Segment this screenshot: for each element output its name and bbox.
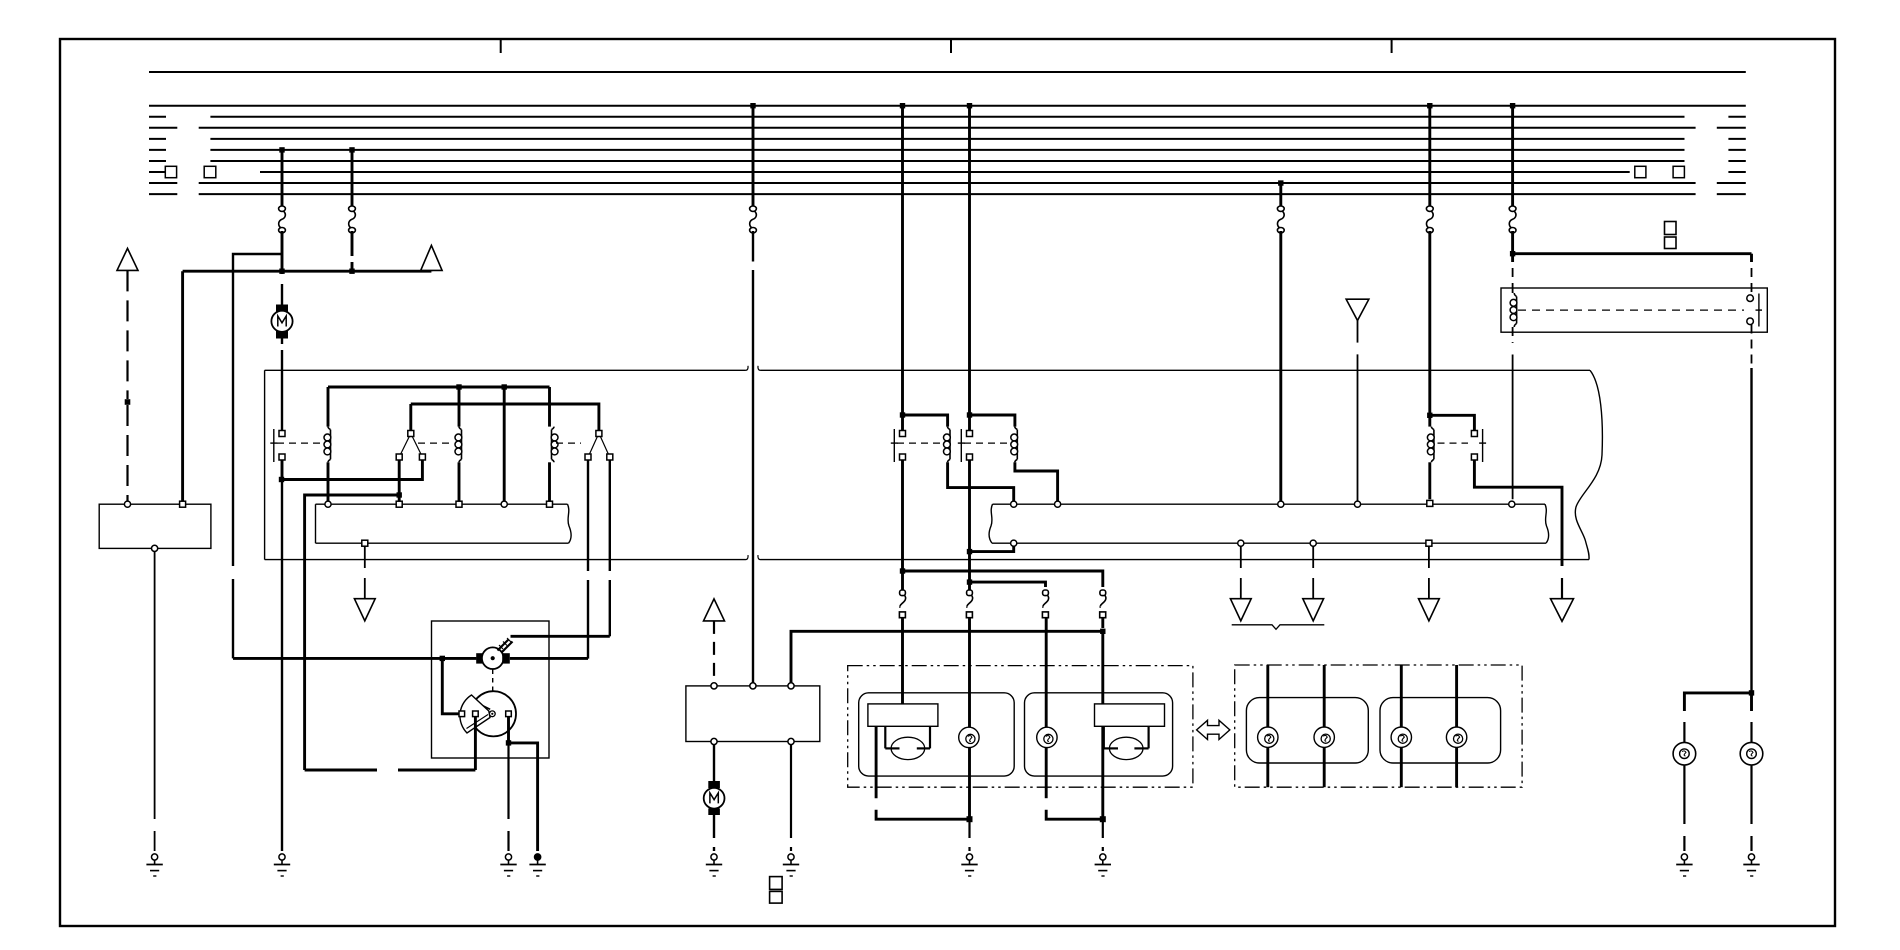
relay R3 coil xyxy=(551,427,558,463)
bus line 5 right stub xyxy=(1728,149,1745,151)
bus line 2 left stub xyxy=(149,116,166,118)
relay R1 switch xyxy=(270,429,285,462)
wire: connector to right lamp xyxy=(1101,618,1104,629)
marker bulb right xyxy=(1740,742,1763,765)
junction dot bus line1 / F3 xyxy=(750,103,755,108)
right position bulb xyxy=(1037,727,1057,747)
ground G10 xyxy=(1743,854,1759,876)
page connector triangle D (up) xyxy=(704,598,725,621)
wire: R5 feed jog to coil xyxy=(970,415,1015,427)
tail light dash-dot housing xyxy=(1235,665,1522,787)
feed wire from ignition switch node xyxy=(183,270,432,273)
wire: triangle D to washer unit (dashed) xyxy=(713,621,715,683)
tail lamp left body (rounded) xyxy=(1246,698,1368,763)
wire: dot to coil R2 top xyxy=(458,387,461,427)
wire: R3 switch right leg xyxy=(609,460,611,636)
taillight relay box xyxy=(1501,288,1767,332)
relay R2 switch (changeover) xyxy=(396,431,425,461)
relay R5 switch xyxy=(958,429,973,462)
tail bulb 4 wire xyxy=(1455,665,1458,787)
wire: motor M2 to ground G5 xyxy=(713,815,715,851)
wire: left marker bulb feed xyxy=(1683,722,1685,743)
HT lead: tower to R3 left leg (636 rail) xyxy=(511,635,610,638)
wire: bus line8 tap to fuse F4 xyxy=(1279,183,1282,207)
wire: coil R7 top stub xyxy=(1512,288,1514,293)
junction dot relay R4 feed xyxy=(900,412,905,417)
wire: distributor right pin down xyxy=(507,717,510,743)
page connector triangle H (down) xyxy=(1419,599,1440,621)
ignition coil body xyxy=(482,647,504,669)
wire: 387 rail down to coil R3 xyxy=(548,387,551,427)
bus line 9 right stub xyxy=(1717,193,1746,195)
wire: right lamp down from bulb base xyxy=(1101,726,1104,819)
splice dot on triangle A wire xyxy=(125,399,131,405)
left control unit box xyxy=(316,504,572,543)
double arrow symbol xyxy=(1197,720,1230,739)
distributor shaft center xyxy=(489,711,495,717)
top border tick 1 xyxy=(500,39,502,53)
ground G8 xyxy=(1095,854,1111,876)
dimmer relay unit box top edge break hooks xyxy=(746,366,761,371)
pin: washer unit top-left xyxy=(711,683,717,689)
wire: pin to triangle E xyxy=(1240,546,1242,598)
right headlamp bulb glass xyxy=(1109,737,1143,759)
left headlamp body (rounded) xyxy=(859,693,1015,776)
coil bus wire (387 rail) xyxy=(328,386,550,389)
left headlamp bulb base xyxy=(868,704,938,726)
wire: coil R3 bottom to ECU pin xyxy=(548,462,551,501)
bus line 9 left stub xyxy=(149,193,177,195)
junction dot relay R5 feed xyxy=(967,412,972,417)
wire: right marker to ground G10 xyxy=(1750,765,1752,851)
wire: R6 switch out jog xyxy=(1474,460,1562,566)
junction dot F2 / feed wire xyxy=(349,269,354,274)
wire: pin to triangle F xyxy=(1312,546,1314,598)
pin: right box bottom x1013 (circle) xyxy=(1011,540,1017,546)
junction dot bus line1 x902 xyxy=(900,103,905,108)
left small control box xyxy=(99,504,211,548)
page connector triangle B (up) xyxy=(421,245,442,271)
dimmer relay unit box xyxy=(1575,370,1602,559)
bus line 2 right stub xyxy=(1728,116,1745,118)
ground G7 xyxy=(961,854,977,876)
page connector triangle E (down) xyxy=(1230,599,1251,621)
ground G5 xyxy=(706,854,722,876)
wire: fuse F3 down to washer unit xyxy=(752,231,754,683)
bus line 1 xyxy=(149,105,1746,107)
wire through right position bulb xyxy=(1045,618,1048,799)
wire through left position bulb xyxy=(968,618,971,820)
junction dot taillight feed node xyxy=(1510,251,1515,256)
ignition coil primary right terminal xyxy=(502,653,510,663)
pin: right box top x1357 (circle) xyxy=(1354,501,1360,507)
pin: right box bottom x1240 (circle) xyxy=(1238,540,1244,546)
wire: coil R5 bottom jog to right box pin xyxy=(1015,462,1058,501)
wire: coil R7 bottom down (dashed) xyxy=(1512,327,1514,499)
wire: bus line1 tap to fuse F3 xyxy=(752,106,755,207)
ground G4 (condenser, solid pin) xyxy=(529,854,545,876)
pin: left ECU bottom (square) xyxy=(362,540,368,546)
bus line 7 left stub xyxy=(149,171,165,173)
693 rail to left marker xyxy=(1684,693,1751,711)
wire: node to left box pin xyxy=(181,271,184,501)
connector right lamp small xyxy=(1042,590,1048,618)
connector box C on line 7 xyxy=(1635,166,1646,177)
wire: R5 top pin from dot xyxy=(968,415,971,431)
bus line 8 left stub xyxy=(149,182,177,184)
fuse F5 xyxy=(1426,206,1433,233)
wire: coil R2 bottom to ECU pin xyxy=(458,462,461,501)
relay R7 switch xyxy=(1747,294,1762,327)
fuse F1 xyxy=(279,206,286,233)
pin: right box top x1013 (circle) xyxy=(1011,501,1017,507)
wire: fuse F5 down to relay R6 xyxy=(1428,231,1431,415)
junction dot condenser branch xyxy=(506,740,511,745)
ignition coil HT tower (hatched) xyxy=(498,638,513,653)
top border tick 3 xyxy=(1391,39,1393,53)
junction dot bus line5 / F1 xyxy=(279,147,284,152)
wire: R7 switch out down xyxy=(1751,325,1753,693)
pin: left box top right (square) xyxy=(180,501,186,507)
small squares marker (bottom) xyxy=(770,877,783,904)
pin: right box top x1057 (circle) xyxy=(1055,501,1061,507)
pin: right box bottom x1428 (square) xyxy=(1426,540,1432,546)
relay R3 switch (changeover) xyxy=(585,431,613,461)
bus line 6 left stub xyxy=(149,160,166,162)
bus line 7 right stub xyxy=(1728,171,1745,173)
tail bulb 1 wire xyxy=(1266,665,1269,787)
wire: dot to right-box pin xyxy=(503,387,506,501)
bus line 5 xyxy=(210,149,1684,151)
junction dot 387 rail / coil R2 feed xyxy=(456,384,461,389)
ground G3 xyxy=(500,854,516,876)
pin: left ECU coil R3 (square) xyxy=(547,501,553,507)
pin: left ECU coil R1 (circle) xyxy=(325,501,331,507)
tail bulb 4 xyxy=(1446,727,1466,747)
connector box D on line 7 xyxy=(1673,166,1684,177)
bus line 6 right stub xyxy=(1728,160,1745,162)
motor M1 (washer motor) xyxy=(271,305,292,339)
wire: washer jog to long drop xyxy=(233,254,282,566)
pin: right box top x1429 (square) xyxy=(1427,500,1433,506)
wire: condenser branch xyxy=(509,743,538,851)
bus line 4 right stub xyxy=(1728,138,1745,140)
dimmer relay unit box top edge left part xyxy=(265,369,746,371)
page connector triangle F (down) xyxy=(1303,599,1324,621)
wire: bus line1 tap to fuse F5 xyxy=(1428,106,1431,207)
pin: distributor left xyxy=(459,711,465,717)
junction dot 631 rail / right lamp xyxy=(1100,629,1105,634)
washer control unit box xyxy=(686,686,820,742)
tail bulb 1 xyxy=(1258,727,1278,747)
relay R5 coil xyxy=(1011,427,1018,463)
right headlamp bulb cup left side xyxy=(1104,726,1118,748)
bus line 5 left stub xyxy=(149,149,166,151)
ground G1 xyxy=(146,854,162,876)
pin: right box bottom x1313 (circle) xyxy=(1310,540,1316,546)
fuse F3 xyxy=(750,206,757,233)
dimmer relay unit box bottom edge right part xyxy=(761,559,1590,561)
wire: antenna stem xyxy=(1357,321,1359,502)
fuse F6 xyxy=(1509,206,1516,233)
tail bulb 2 xyxy=(1314,727,1334,747)
top border tick 2 xyxy=(950,39,952,53)
relay R4 switch xyxy=(891,429,906,462)
pin: washer unit bottom-left xyxy=(711,738,717,744)
top horizontal rule xyxy=(149,71,1746,73)
631 rail: washer feed to right lamp wire xyxy=(791,631,1102,683)
wire: fuse F4 to right box pin xyxy=(1279,231,1282,501)
tail bulb 2 wire xyxy=(1323,665,1326,787)
page connector triangle C (down) xyxy=(354,599,375,621)
left position bulb xyxy=(959,727,979,747)
underline bracket below triangles E/F xyxy=(1232,625,1325,630)
right headlamp bulb cup right side xyxy=(1134,726,1148,748)
junction dot bus line1 x969 xyxy=(967,103,972,108)
wire: 254 rail down to R7 switch (dashed) xyxy=(1750,254,1753,295)
wire: R2 bottom-left pin down xyxy=(398,460,401,501)
bus line 4 left stub xyxy=(149,138,166,140)
junction dot right lamp ground xyxy=(1100,816,1106,822)
pin: distributor middle xyxy=(473,711,479,717)
wire: coil R6 bottom to right box pin xyxy=(1428,462,1431,499)
wire: left lamp to ground G7 xyxy=(968,819,970,851)
junction dot 571 rail xyxy=(900,568,905,573)
junction dot 658 rail xyxy=(440,656,445,661)
wire: bus line1 tap down (right headlamp feed) xyxy=(968,106,971,415)
wire: R1 common to ground drop xyxy=(281,480,283,852)
wire: R6 feed jog to switch xyxy=(1430,415,1475,430)
dashed shaft: coil to distributor xyxy=(492,670,494,691)
wire: to left lamp small bulb connector xyxy=(968,582,971,590)
wire: 551 jog up to right box bottom pin xyxy=(970,546,1014,551)
connector right lamp main xyxy=(1100,590,1106,618)
wire: R4 switch out down xyxy=(901,460,904,571)
bus line 2 xyxy=(210,116,1684,118)
connector left lamp main xyxy=(899,590,905,618)
wire: distributor right pin to ground G3 xyxy=(507,743,509,851)
bus line 8 xyxy=(199,182,1696,184)
dimmer relay unit box bottom edge left part xyxy=(265,559,746,561)
tail bulb 3 wire xyxy=(1400,665,1403,787)
wire: left ECU bottom pin to triangle C xyxy=(364,546,366,599)
bus line 3 right stub xyxy=(1717,127,1746,129)
wire: bus line1 tap down (left headlamp feed) xyxy=(901,106,904,415)
wire: pin to triangle H xyxy=(1428,546,1430,598)
junction dot 387 rail / ECU feed xyxy=(502,384,507,389)
relay R6 coil xyxy=(1427,427,1434,463)
left headlamp bulb cup right side xyxy=(917,726,930,748)
page connector triangle A (up) xyxy=(117,248,138,270)
relay R6 switch (bar on right) xyxy=(1471,429,1486,462)
wire: R2 top pin feed xyxy=(409,404,412,431)
tail bulb 3 xyxy=(1391,727,1411,747)
wire: connector to left lamp xyxy=(901,618,904,704)
left headlamp bulb cup left side xyxy=(885,726,899,748)
wire: coil terminal to R3 right leg (658 rail right) xyxy=(510,657,588,660)
wire: fuse F1 to node row xyxy=(281,231,284,271)
wire: left box to ground G1 xyxy=(154,552,156,852)
wire: fuse F2 to node row xyxy=(351,231,354,271)
wire: right lamp wire continues xyxy=(1101,631,1104,704)
distributor rotor (wedge) xyxy=(460,695,490,733)
wire: to left lamp connector xyxy=(901,571,904,590)
junction dot bus line1 / F6 xyxy=(1510,103,1515,108)
relay R7 coil xyxy=(1510,293,1517,327)
junction dot bus line1 / F5 xyxy=(1427,103,1432,108)
relay R4 coil xyxy=(944,427,951,463)
junction dot relay R6 feed xyxy=(1427,413,1432,418)
wire: R5 switch out down xyxy=(968,460,971,552)
ground G9 xyxy=(1676,854,1692,876)
junction dot marker feed xyxy=(1749,690,1754,695)
left lamp ground link xyxy=(876,726,969,819)
coil R1 top feed wire xyxy=(327,387,330,427)
bus line 3 left stub xyxy=(149,127,177,129)
fuse F2 xyxy=(349,206,356,233)
dimmer relay unit box top edge right part xyxy=(761,369,1591,371)
relay R1 coil xyxy=(324,427,331,463)
marker bulb left xyxy=(1673,742,1696,765)
page connector triangle G (down) xyxy=(1551,599,1574,622)
wire: right lamp to ground G8 xyxy=(1102,819,1104,851)
dimmer relay unit box bottom edge break hooks xyxy=(746,555,761,560)
wire: R6 out to triangle G xyxy=(1561,578,1563,599)
404 rail (R2/R3 switch feed) xyxy=(411,404,599,431)
dimmer relay unit box left edge xyxy=(264,370,266,559)
wire: motor M1 to relay R1 switch xyxy=(281,339,283,431)
tail lamp right body (rounded) xyxy=(1380,698,1501,763)
pin: left ECU feed (circle) xyxy=(501,501,507,507)
bus line 6 xyxy=(210,160,1684,162)
connector box B on line 7 xyxy=(204,166,216,177)
right headlamp bulb base xyxy=(1095,704,1165,726)
distributor cap (pac-man circle) xyxy=(461,691,516,736)
relay R7 dashed link xyxy=(1518,309,1744,311)
bus line 7 xyxy=(260,171,1630,173)
pin: left box bottom (circle) xyxy=(152,545,158,551)
left headlamp bulb glass xyxy=(891,737,925,759)
right headlamp body (rounded) xyxy=(1025,693,1173,776)
pin: left box top left (circle) xyxy=(124,501,130,507)
ignition coil primary left terminal xyxy=(476,653,483,663)
582 rail to right lamp small bulb wire xyxy=(970,582,1046,587)
pin: right box top x1512 (circle) xyxy=(1509,501,1515,507)
relay R6 dashed link xyxy=(1438,442,1469,444)
junction dot 495 rail xyxy=(397,492,402,497)
wire: R4 top pin from dot xyxy=(901,415,904,431)
bus line 3 xyxy=(199,127,1696,129)
wire: long drop to ignition coil (658 rail) xyxy=(233,657,476,660)
wire: washer unit right pin to ground G6 xyxy=(790,745,792,851)
long drop wire lower part xyxy=(232,579,234,658)
junction dot 582 jog xyxy=(967,579,972,584)
motor M2 (pump motor) xyxy=(704,781,725,815)
ignition unit box xyxy=(432,621,550,758)
left headlight dash-dot housing xyxy=(848,666,1193,788)
wire: coil R1 bottom to ECU pin xyxy=(327,462,330,501)
wire: dot down to distributor pin xyxy=(442,658,458,713)
wire: bus line5 tap to fuse F1 xyxy=(281,150,284,207)
bus line 4 xyxy=(210,138,1684,140)
pin: washer unit top-right xyxy=(788,683,794,689)
bus line 9 xyxy=(199,193,1696,195)
junction dot 479 rail xyxy=(279,477,284,482)
junction dot bus line5 / F2 xyxy=(349,147,354,152)
wire: distributor middle pin to 770 rail xyxy=(474,717,477,770)
antenna triangle (down) xyxy=(1346,299,1369,320)
wire: fuse F6 to taillight relay node xyxy=(1511,231,1514,254)
wire: R1 switch out / 479 rail xyxy=(282,460,422,480)
254 rail to taillight switch xyxy=(1513,252,1752,255)
495 rail (R2 switch to wiper link) xyxy=(305,495,400,770)
junction dot 551 jog xyxy=(967,549,972,554)
relay R5 dashed link xyxy=(964,442,1007,444)
wire: coil R4 bottom jog to right box pin xyxy=(948,462,1014,501)
pin: left ECU R2 left (square) xyxy=(396,501,402,507)
pin: distributor right xyxy=(506,711,512,717)
relay R2 coil xyxy=(455,427,462,463)
wire: node into relay R7 coil (dashed) xyxy=(1511,254,1514,288)
wire: bus line1 tap to fuse F6 xyxy=(1511,106,1514,207)
relay R4 dashed link xyxy=(897,442,940,444)
wire: R3 switch left leg xyxy=(587,460,589,659)
junction dot left lamp ground xyxy=(967,816,973,822)
fuse F4 xyxy=(1277,206,1284,233)
pin: washer unit top-mid xyxy=(750,683,756,689)
ground G2 xyxy=(274,854,290,876)
571 rail to right lamp xyxy=(903,571,1103,587)
relay R1 dashed link xyxy=(277,442,323,444)
wire: R5 out continues down xyxy=(968,552,971,583)
connector box A on line 7 xyxy=(165,166,176,177)
relay R3 dashed link xyxy=(556,442,581,444)
motor M1 wire upper xyxy=(281,271,283,304)
wire: bus line5 tap to fuse F2 xyxy=(351,150,354,207)
ground G6 xyxy=(783,854,799,876)
pin: washer unit bottom-right xyxy=(788,738,794,744)
pin: right box top x1280 (circle) xyxy=(1278,501,1284,507)
wire: left marker to ground G9 xyxy=(1683,765,1685,851)
wire: dot to coil R6 top xyxy=(1428,415,1431,426)
wire: washer unit to motor M2 xyxy=(713,745,715,781)
wire: R4 feed jog to coil xyxy=(903,415,948,427)
small squares marker (top right) xyxy=(1665,222,1677,249)
right control unit box xyxy=(989,504,1549,543)
relay R2 dashed link xyxy=(418,442,452,444)
770 rail (points wire) xyxy=(305,769,476,772)
pin: left ECU coil R2 (square) xyxy=(456,501,462,507)
bus line 8 right stub xyxy=(1717,182,1746,184)
right lamp ground link xyxy=(1046,810,1103,820)
wire: right marker bulb feed xyxy=(1750,693,1753,743)
connector left lamp small xyxy=(966,590,972,618)
junction dot bus line8 / F4 xyxy=(1278,180,1283,185)
junction dot F1 / feed wire xyxy=(279,269,284,274)
wire: triangle A to control box (dashed) xyxy=(126,270,128,501)
